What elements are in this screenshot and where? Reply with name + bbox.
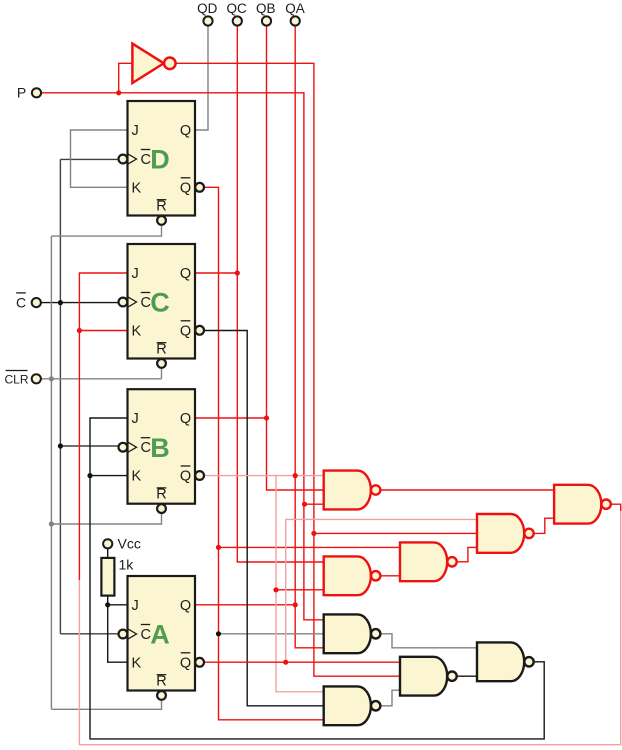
- junction inverter net and NAND U2 middle input: [311, 531, 316, 536]
- svg-text:J: J: [132, 411, 139, 427]
- svg-text:QB: QB: [256, 1, 276, 16]
- NAND gate U3 (2-input, red): [400, 542, 447, 581]
- resistor R1 pull-up: [101, 558, 114, 596]
- NAND gate U4 (2-input, red): [324, 556, 371, 595]
- flip-flop A (U14) clock bubble: [119, 630, 128, 639]
- flip-flop B (U13) inverted output Q-bar bubble: [195, 471, 204, 480]
- wire branch Q-bar B net to NAND U4 bottom input: [276, 589, 324, 591]
- wire Vcc terminal to resistor R1: [107, 548, 109, 558]
- flip-flop D (U11) clock edge triangle: [128, 154, 137, 165]
- svg-text:B: B: [150, 433, 170, 463]
- junction Q-bar D net and NAND U6 middle input: [216, 631, 221, 636]
- junction CLR column and terminal CLR wire: [49, 376, 54, 381]
- wire Q-bar of D down to NAND U9 bottom input: [204, 187, 324, 720]
- wire clock branch to flip-flop D clock: [60, 158, 118, 160]
- wire clock column joining all flip-flop clock inputs: [59, 159, 61, 633]
- flip-flop A (U14) overbar on C: [141, 624, 150, 626]
- wire QB net: terminal QB down past B.Q junction to NAND U1 middle input: [267, 26, 324, 490]
- svg-text:Q: Q: [180, 598, 191, 614]
- junction QA net and NAND U1 top input: [293, 473, 298, 478]
- NAND gate U2 (3-input, red): [477, 514, 524, 553]
- wire stub flip-flop C reset bubble down: [161, 368, 163, 379]
- flip-flop C (U12) clock edge triangle: [128, 297, 137, 308]
- wire P net: terminal P across and down to NAND U6 top input: [41, 93, 324, 620]
- junction feedback net and flip-flop B pin K: [87, 473, 92, 478]
- junction QB net and flip-flop B output Q: [264, 415, 269, 420]
- svg-text:QA: QA: [285, 1, 305, 16]
- terminal QC: [233, 16, 242, 25]
- flip-flop B (U13) clock edge triangle: [128, 442, 137, 453]
- svg-text:QC: QC: [226, 1, 247, 16]
- JK flip-flop C (U12) body: [128, 244, 196, 359]
- svg-text:K: K: [132, 180, 142, 196]
- svg-text:Q: Q: [180, 266, 191, 282]
- wire CLR column joining all flip-flop resets: [50, 236, 52, 709]
- NAND gate U7 (3-input, black): [400, 657, 447, 696]
- wire branch P net to NAND U1 bottom input: [305, 503, 324, 505]
- junction clock column and terminal C-bar wire: [58, 300, 63, 305]
- junction P net and inverter branch: [116, 90, 121, 95]
- wire from flip-flop A pin Q to QA column: [195, 604, 295, 606]
- NAND gate U8 (2-input, black): [477, 642, 524, 681]
- svg-text:D: D: [150, 145, 170, 175]
- junction P net and NAND U1 bottom input: [302, 502, 307, 507]
- wire from terminal CLR to flip-flop C reset: [41, 378, 162, 380]
- junction clock column and flip-flop B clock: [58, 443, 63, 448]
- junction QA net and flip-flop A output Q: [293, 602, 298, 607]
- flip-flop A (U14) overbar on Q-bar: [181, 652, 191, 654]
- svg-text:J: J: [132, 598, 139, 614]
- NAND gate U1 (3-input, red): [324, 471, 371, 510]
- flip-flop B (U13) overbar on Q-bar: [181, 465, 191, 467]
- svg-text:K: K: [132, 469, 142, 485]
- svg-text:Q: Q: [180, 411, 191, 427]
- wire CLR branch to flip-flop D reset: [51, 225, 161, 236]
- svg-text:K: K: [132, 323, 142, 339]
- wire CLR branch to flip-flop A reset: [51, 700, 161, 710]
- wire flip-flop C pin J to feedback column: [79, 273, 127, 580]
- svg-text:Vcc: Vcc: [118, 536, 141, 552]
- flip-flop C (U12) inverted output Q-bar bubble: [195, 326, 204, 335]
- svg-text:CLR: CLR: [4, 373, 28, 387]
- JK flip-flop B (U13) body: [128, 389, 196, 504]
- terminal QD: [203, 16, 212, 25]
- flip-flop D (U11) overbar on Q-bar: [181, 177, 191, 179]
- wire Q-bar of B toward NAND U1 top input: [204, 475, 295, 477]
- NAND gate U6 (3-input, black): [324, 614, 371, 653]
- wire CLR branch to flip-flop B reset: [51, 512, 161, 524]
- wire branch to flip-flop B pin K: [90, 475, 128, 477]
- junction feedback net and flip-flop C pin K: [77, 328, 82, 333]
- flip-flop C (U12) overbar on Q-bar: [181, 320, 191, 322]
- junction QC net and flip-flop C output Q: [235, 270, 240, 275]
- flip-flop B (U13) overbar on R: [157, 487, 167, 489]
- svg-text:J: J: [132, 266, 139, 282]
- flip-flop B (U13) clock bubble: [119, 443, 128, 452]
- svg-text:A: A: [150, 620, 170, 650]
- flip-flop C (U12) overbar on R: [157, 342, 167, 344]
- flip-flop C (U12) reset R-bar bubble: [157, 359, 166, 368]
- flip-flop C (U12) clock bubble: [119, 298, 128, 307]
- svg-text:Q: Q: [180, 180, 191, 196]
- flip-flop A (U14) reset R-bar bubble: [157, 691, 166, 700]
- wire branch to flip-flop A pin J: [108, 604, 128, 606]
- junction Q-bar B net and NAND U4 bottom input: [273, 587, 278, 592]
- svg-text:Q: Q: [180, 123, 191, 139]
- wire clock branch to flip-flop A clock: [60, 633, 118, 635]
- flip-flop B (U13) reset R-bar bubble: [157, 504, 166, 513]
- wire NAND U5 output stub to right-edge feedback column: [611, 504, 620, 511]
- wire resistor R1 down to flip-flop A pin K: [108, 596, 128, 663]
- wire branch to flip-flop C pin K: [79, 330, 127, 332]
- flip-flop D (U11) reset R-bar bubble: [157, 216, 166, 225]
- terminal C-bar input: [32, 298, 41, 307]
- flip-flop A (U14) overbar on R: [157, 674, 167, 676]
- svg-text:1k: 1k: [119, 557, 135, 573]
- flip-flop D (U11) overbar on C: [141, 149, 150, 151]
- wire feedback loop from NAND U8 output around bottom to flip-flop B pins J and K: [90, 418, 544, 739]
- wire feedback loop from NAND U5 output around bottom to flip-flop C J and K: [79, 511, 620, 745]
- overbar on input label C: [16, 292, 26, 294]
- svg-text:C: C: [16, 294, 26, 310]
- svg-text:Q: Q: [180, 655, 191, 671]
- JK flip-flop D (U11) body: [128, 101, 196, 216]
- NAND gate U5 (2-input, red): [554, 485, 601, 524]
- wire branch Q-bar D net to NAND U6 middle input: [219, 633, 324, 635]
- flip-flop B (U13) overbar on C: [141, 437, 150, 439]
- wire NAND U4 output to NAND U3 bottom input: [381, 575, 401, 577]
- wire NAND U9 output to NAND U7 bottom input: [380, 690, 400, 706]
- svg-text:QD: QD: [197, 1, 218, 16]
- wire Q-bar of A to NAND U7 top input: [204, 661, 400, 663]
- junction Q-bar A net and branch to NAND U2: [283, 660, 288, 665]
- terminal CLR input: [32, 374, 41, 383]
- wire from flip-flop B pin Q to QB column: [195, 417, 267, 419]
- wire NAND U2 output to NAND U5 bottom input: [535, 518, 555, 533]
- flip-flop A (U14) clock edge triangle: [128, 629, 137, 640]
- svg-text:C: C: [150, 288, 170, 318]
- wire into NAND U1 top input: [295, 475, 324, 477]
- flip-flop D (U11) inverted output Q-bar bubble: [195, 183, 204, 192]
- power terminal Vcc: [103, 539, 112, 548]
- svg-text:R: R: [156, 199, 166, 215]
- flip-flop C (U12) overbar on C: [141, 292, 150, 294]
- junction Q-bar D net and NAND U3 top input: [216, 545, 221, 550]
- flip-flop D (U11) overbar on R: [157, 199, 167, 201]
- wire clock branch to flip-flop B clock: [60, 445, 118, 447]
- svg-text:Q: Q: [180, 323, 191, 339]
- terminal QA: [291, 16, 300, 25]
- wire NAND U7 output to NAND U8 bottom input: [457, 675, 477, 677]
- wire tying flip-flop D pins J and K: [71, 130, 128, 187]
- wire inverter U10 output down to NAND U7 middle input: [175, 63, 400, 676]
- svg-text:Q: Q: [180, 469, 191, 485]
- wire from flip-flop C pin Q to QC column: [195, 272, 237, 274]
- svg-text:P: P: [17, 85, 26, 101]
- wire QA net: terminal QA down to NAND U6 bottom input: [295, 26, 324, 648]
- junction resistor R1 and flip-flop A pin J: [105, 602, 110, 607]
- wire NAND U6 output to NAND U8 top input: [380, 634, 477, 648]
- wire QD output net: terminal QD down to flip-flop D pin Q: [195, 26, 208, 130]
- wire Q-bar of C down to NAND U9 middle input: [204, 331, 324, 706]
- svg-text:R: R: [156, 487, 166, 503]
- svg-text:R: R: [156, 342, 166, 358]
- wire NAND U3 output to NAND U2 bottom input: [458, 547, 477, 561]
- junction CLR column and flip-flop B reset: [49, 521, 54, 526]
- overbar on input label CLR: [6, 370, 28, 372]
- svg-text:J: J: [132, 123, 139, 139]
- wire Q-bar B column down to NAND U9 top input: [276, 476, 324, 692]
- JK flip-flop A (U14) body: [128, 576, 196, 691]
- NAND gate U9 (3-input, black): [324, 686, 371, 725]
- terminal P: [32, 88, 41, 97]
- wire from terminal C-bar to flip-flop C clock input: [41, 302, 119, 304]
- wire QC net: terminal QC down past C.Q junction to NAND U4 top input: [237, 26, 323, 562]
- svg-text:K: K: [132, 655, 142, 671]
- wire branch Q-bar A net up to NAND U2 top input: [286, 519, 477, 662]
- flip-flop D (U11) clock bubble: [119, 155, 128, 164]
- inverter U10: [132, 44, 163, 83]
- wire branch Q-bar D net to NAND U3 top input: [219, 546, 401, 548]
- svg-text:R: R: [156, 674, 166, 690]
- flip-flop A (U14) inverted output Q-bar bubble: [195, 658, 204, 667]
- terminal QB: [262, 16, 271, 25]
- wire NAND U1 output to NAND U5 top input: [380, 489, 554, 491]
- wire branch P net up into inverter U10 input: [119, 63, 133, 93]
- wire branch inverter net to NAND U2 middle input: [314, 532, 477, 534]
